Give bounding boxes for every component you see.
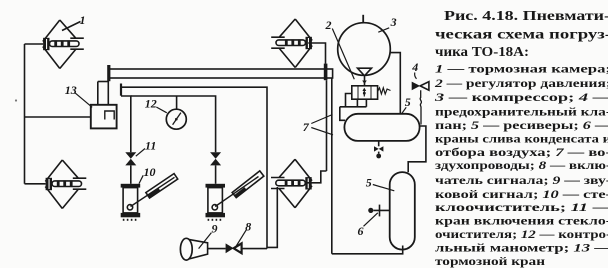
label 2 leader	[332, 29, 354, 80]
wire from bottom-right chamber to duct A	[305, 171, 327, 183]
wire valve 8 to riser	[242, 248, 267, 250]
svg-text:3: 3	[390, 15, 397, 29]
brake chamber (bottom-left)	[45, 160, 86, 209]
pressure regulator 2	[358, 68, 372, 76]
label 5 leader (lower)	[373, 185, 395, 191]
horn valve 8 (bow-tie)	[226, 243, 234, 253]
wiper blade	[146, 174, 178, 198]
svg-text:пан; 5 — ресиверы; 6 —: пан; 5 — ресиверы; 6 —	[435, 120, 608, 132]
label 10 leader	[139, 175, 143, 183]
wiper valve 11 (left)	[125, 152, 136, 165]
regulator spring	[378, 88, 391, 94]
svg-text:2 — регулятор давления;: 2 — регулятор давления;	[434, 78, 608, 90]
regulator outlet piping	[346, 94, 352, 107]
wire: to top-left chamber	[25, 43, 44, 45]
svg-text:11: 11	[145, 139, 156, 153]
wiper blade (right)	[232, 171, 264, 198]
compressor 3 (circle)	[338, 23, 391, 76]
scan speck	[15, 99, 17, 101]
svg-text:клоочиститель; 11 —: клоочиститель; 11 —	[435, 202, 608, 214]
svg-text:ковой сигнал; 10 — сте-: ковой сигнал; 10 — сте-	[435, 189, 608, 201]
wiper 10 (left)	[121, 184, 141, 221]
svg-text:очистителя; 12 — контро-: очистителя; 12 — контро-	[435, 229, 608, 241]
label 11 leader	[136, 149, 145, 157]
wiper arm	[131, 177, 175, 206]
svg-text:8: 8	[245, 220, 251, 234]
label 5 leader	[402, 107, 406, 113]
svg-text:отбора воздуха; 7 — во-: отбора воздуха; 7 — во-	[435, 147, 608, 159]
svg-text:кран включения стекло-: кран включения стекло-	[435, 216, 608, 228]
label 13 leader	[75, 93, 92, 107]
wiper supply line	[121, 96, 131, 152]
label 9 leader	[199, 233, 212, 249]
wire from top-right chamber to main pipe	[308, 43, 325, 64]
label 3 leader	[378, 28, 389, 32]
label 1 leader	[62, 22, 81, 31]
brake chamber 1 (top-left)	[43, 20, 84, 69]
wiper (right)	[206, 184, 226, 221]
wire: receiver to receiver	[408, 126, 426, 172]
svg-text:краны слива конденсата и: краны слива конденсата и	[435, 134, 608, 146]
svg-text:предохранительный кла-: предохранительный кла-	[435, 107, 608, 119]
wire: box 13 risers to main pipe	[97, 82, 99, 105]
svg-text:2: 2	[325, 18, 332, 32]
wire junction to chamber fork riser	[267, 187, 277, 247]
wiper arm (right)	[215, 177, 258, 207]
label 4 leader	[415, 73, 417, 79]
svg-text:13: 13	[65, 83, 77, 97]
drain valve 6 (under receiver)	[378, 141, 380, 146]
brake chamber (top-right, mirrored)	[271, 19, 312, 68]
pressure gauge 12	[176, 96, 178, 110]
safety valve 4	[412, 82, 420, 91]
svg-text:льный манометр; 13 —: льный манометр; 13 —	[435, 242, 608, 254]
duct B (down right side)	[331, 78, 333, 254]
receiver 5 (vertical)	[390, 172, 415, 250]
wire: branch to brake valve 13	[25, 116, 92, 118]
svg-text:1 — тормозная камера;: 1 — тормозная камера;	[435, 64, 608, 76]
wire: left vertical trunk	[24, 44, 26, 184]
svg-text:10: 10	[144, 165, 156, 179]
svg-text:чатель сигнала; 9 — зву-: чатель сигнала; 9 — зву-	[435, 175, 608, 187]
svg-text:12: 12	[145, 97, 157, 111]
svg-text:5: 5	[405, 95, 411, 109]
svg-text:1: 1	[80, 13, 86, 27]
wire: to bottom-left chamber	[25, 183, 46, 185]
svg-text:Рис. 4.18. Пневмати-: Рис. 4.18. Пневмати-	[444, 8, 608, 23]
wiper valve (right)	[210, 152, 221, 165]
label 7 leaders	[311, 115, 332, 124]
svg-text:тормозной кран: тормозной кран	[435, 256, 546, 268]
air take-off valve 6	[374, 209, 390, 211]
compressor outlet	[390, 53, 400, 114]
duct A (to bottom-right chamber)	[326, 80, 328, 171]
air pipe (main bus, item 7)	[109, 69, 333, 78]
svg-text:5: 5	[366, 176, 372, 190]
label 12 leader	[156, 107, 167, 113]
label 8 leader	[235, 230, 246, 248]
brake chamber (bottom-right, mirrored)	[271, 159, 312, 208]
svg-text:9: 9	[212, 222, 218, 236]
svg-text:3 — компрессор; 4 —: 3 — компрессор; 4 —	[433, 92, 608, 104]
svg-text:чика ТО-18А:: чика ТО-18А:	[435, 44, 529, 59]
wire: bottom run to lower receiver	[332, 246, 403, 254]
label 6 leader	[364, 213, 378, 227]
svg-text:7: 7	[303, 120, 310, 134]
svg-text:4: 4	[411, 60, 418, 74]
svg-text:ческая схема погруз-: ческая схема погруз-	[435, 27, 608, 42]
svg-text:здухопроводы; 8 — вклю-: здухопроводы; 8 — вклю-	[435, 160, 608, 172]
receiver 5 (horizontal)	[344, 114, 419, 141]
secondary air line (to horn circuit)	[120, 84, 122, 96]
brake valve 13 (box)	[91, 105, 117, 129]
air horn 9	[180, 238, 192, 260]
svg-text:6: 6	[358, 224, 364, 238]
